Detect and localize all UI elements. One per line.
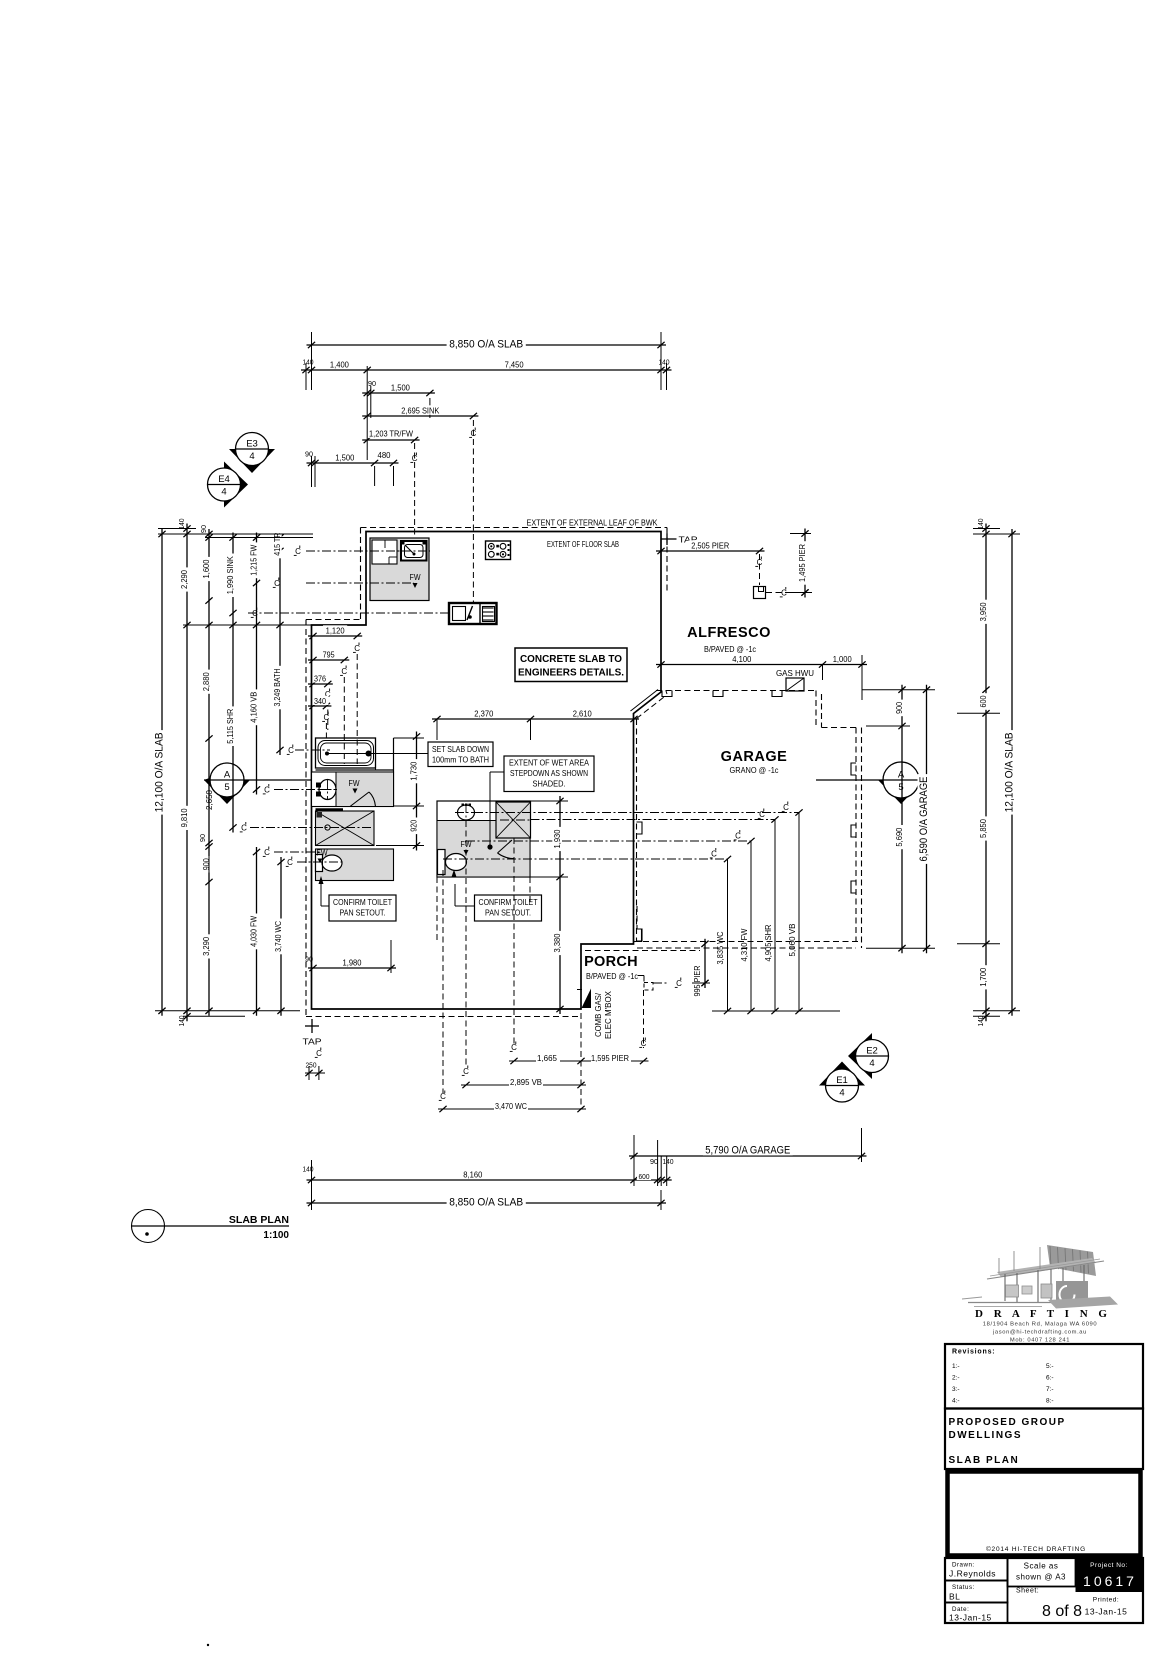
logo address	[983, 1322, 1097, 1328]
svg-text:13-Jan-15: 13-Jan-15	[949, 1613, 992, 1623]
tap symbol top (alfresco)	[661, 534, 698, 546]
svg-text:4: 4	[869, 1058, 874, 1069]
labels 8160 row	[303, 1140, 674, 1186]
wet area leader	[487, 772, 504, 850]
svg-text:140: 140	[177, 1016, 186, 1027]
1495 pier extension lines	[790, 534, 812, 593]
svg-text:140: 140	[976, 519, 985, 530]
svg-text:6,590 O/A GARAGE: 6,590 O/A GARAGE	[918, 776, 930, 861]
shr2 CL down	[510, 838, 517, 1052]
svg-text:2,880: 2,880	[201, 672, 211, 691]
left top extension rows	[158, 529, 313, 538]
ensuite FW label	[349, 779, 360, 794]
svg-text:E4: E4	[218, 474, 230, 485]
svg-text:EXTENT OF WET AREA: EXTENT OF WET AREA	[509, 758, 589, 768]
svg-text:1,215 FW: 1,215 FW	[249, 545, 259, 576]
svg-text:Revisions:: Revisions:	[952, 1349, 995, 1356]
section line A-A left	[204, 777, 312, 783]
section marker E3	[229, 433, 275, 474]
dimension 995 PIER	[701, 939, 708, 988]
svg-text:900: 900	[201, 858, 211, 870]
ext 1930	[530, 801, 568, 877]
svg-text:6:-: 6:-	[1046, 1375, 1054, 1382]
svg-text:PAN SETOUT.: PAN SETOUT.	[485, 908, 531, 918]
svg-text:C: C	[287, 858, 293, 867]
dimension 5790 OA GARAGE	[629, 1144, 867, 1159]
dimension 90/1500 row	[362, 382, 435, 396]
label 90 left a	[199, 525, 208, 533]
ensuite wc area	[316, 849, 394, 881]
dimension 4100/1000 alfresco	[656, 654, 867, 668]
label 90 b	[305, 450, 313, 459]
svg-text:1,665: 1,665	[537, 1053, 557, 1063]
porch pier dashed box	[644, 978, 710, 991]
chamfer corner dashed leaf	[631, 690, 668, 719]
dim 3470 WC	[438, 1101, 586, 1112]
svg-text:PROPOSED GROUP: PROPOSED GROUP	[949, 1417, 1066, 1428]
room label ALFRESCO	[687, 625, 771, 641]
tap symbol bottom	[303, 1019, 323, 1058]
confirm toilet note box left	[329, 895, 396, 921]
room label PORCH paved	[586, 972, 638, 981]
svg-text:1,000: 1,000	[833, 654, 852, 664]
svg-text:1:100: 1:100	[263, 1230, 289, 1241]
logo mobile	[1010, 1338, 1070, 1344]
dimension 340	[308, 703, 331, 709]
bath2 FW label	[461, 840, 472, 855]
note box set slab down	[428, 742, 493, 767]
logo word DRAFTING	[975, 1308, 1111, 1320]
svg-text:C: C	[440, 1092, 446, 1101]
svg-text:1,495 PIER: 1,495 PIER	[797, 544, 807, 582]
svg-text:ENGINEERS DETAILS.: ENGINEERS DETAILS.	[518, 667, 624, 679]
svg-text:8,160: 8,160	[463, 1170, 482, 1180]
svg-text:TAP: TAP	[303, 1037, 322, 1047]
svg-text:795: 795	[323, 650, 335, 660]
svg-text:GARAGE: GARAGE	[721, 749, 788, 765]
dimension 140/1400/7450 top	[301, 359, 672, 373]
bath2 room outline	[437, 801, 530, 877]
svg-text:C: C	[341, 667, 347, 676]
pier centreline dashed vertical	[755, 554, 762, 585]
alfresco pier square	[754, 587, 766, 599]
ensuite shower	[316, 811, 375, 846]
svg-text:9,810: 9,810	[179, 808, 189, 827]
svg-text:376: 376	[314, 675, 326, 684]
svg-text:C: C	[295, 547, 301, 556]
shr CL to garage	[531, 809, 779, 1012]
svg-text:4,905 SHR: 4,905 SHR	[763, 925, 773, 962]
label 1203	[368, 429, 416, 439]
bath tub	[316, 738, 376, 768]
svg-text:900: 900	[894, 702, 904, 714]
svg-text:EXTENT OF FLOOR SLAB: EXTENT OF FLOOR SLAB	[547, 540, 619, 549]
svg-text:100mm TO BATH: 100mm TO BATH	[432, 755, 489, 765]
ensuite door swing	[350, 792, 376, 807]
bath CL dashed	[295, 749, 330, 751]
svg-text:90: 90	[305, 955, 313, 964]
dimension 2370/2610	[432, 708, 639, 722]
pier centreline dashed horizontal	[766, 587, 809, 598]
svg-text:C: C	[641, 1039, 647, 1048]
laundry FW label	[410, 573, 421, 588]
svg-text:5,850: 5,850	[978, 819, 988, 838]
project title box	[945, 1409, 1143, 1470]
note box concrete slab	[515, 648, 627, 682]
svg-text:4,030 FW: 4,030 FW	[249, 916, 259, 947]
svg-text:C: C	[471, 429, 477, 438]
svg-text:995 PIER: 995 PIER	[692, 966, 702, 997]
svg-text:140: 140	[663, 1157, 674, 1166]
section marker E4	[208, 462, 249, 508]
bottom row line garage dims	[712, 1008, 840, 1014]
svg-text:2,610: 2,610	[573, 709, 592, 719]
svg-text:E3: E3	[246, 439, 258, 450]
note box wet area	[504, 756, 594, 792]
svg-text:1,730: 1,730	[409, 761, 419, 780]
svg-text:5: 5	[898, 782, 903, 793]
svg-text:5,690: 5,690	[894, 827, 904, 846]
svg-text:5,790 O/A GARAGE: 5,790 O/A GARAGE	[705, 1145, 790, 1157]
svg-text:1:-: 1:-	[952, 1363, 960, 1370]
label 2650	[204, 790, 214, 810]
svg-text:4,100: 4,100	[732, 654, 751, 664]
svg-text:3,290: 3,290	[201, 937, 211, 956]
dimension 1120	[308, 625, 362, 639]
svg-text:E2: E2	[866, 1046, 878, 1057]
ext row463	[312, 456, 394, 487]
svg-text:4: 4	[221, 487, 226, 498]
svg-text:250: 250	[306, 1061, 317, 1070]
label 90 1980	[305, 940, 391, 973]
section marker E1	[819, 1062, 865, 1103]
laundry fw CL dashed	[306, 582, 414, 584]
cl 795	[340, 666, 347, 765]
dimension 4030 FW	[249, 847, 261, 1016]
svg-text:140: 140	[976, 1016, 985, 1027]
ensuite vanity basin	[316, 780, 337, 800]
ensuite vanity area	[312, 772, 394, 807]
dimension 1215 fw / 4160 vb	[249, 533, 261, 795]
dimension 3740 WC	[273, 857, 285, 1016]
svg-text:4: 4	[249, 451, 254, 462]
extension 4100 ticks	[823, 655, 863, 700]
svg-text:STEPDOWN AS SHOWN: STEPDOWN AS SHOWN	[510, 768, 588, 778]
left chain 209 mid	[208, 739, 210, 883]
svg-text:C: C	[274, 579, 280, 588]
confirm toilet leader right	[455, 884, 475, 906]
laundry trough sink	[401, 541, 427, 561]
svg-text:90: 90	[198, 834, 207, 842]
svg-text:600: 600	[978, 695, 988, 707]
label 90 left b	[198, 834, 207, 842]
svg-text:2,370: 2,370	[474, 709, 493, 719]
svg-text:C: C	[511, 1043, 517, 1052]
confirm toilet leader left	[319, 876, 330, 906]
tr/fw CL vertical dashed	[410, 443, 417, 538]
dimension 6590 OA GARAGE	[918, 685, 931, 954]
porch pier centreline down	[639, 990, 646, 1048]
section marker A5 left	[204, 763, 250, 804]
svg-text:C: C	[759, 810, 765, 819]
svg-text:90: 90	[368, 379, 376, 388]
vanity CL dashed	[274, 789, 336, 791]
ext 8850 bottom	[312, 1160, 662, 1210]
wc CL to garage	[443, 848, 731, 1011]
svg-text:SHADED.: SHADED.	[533, 779, 566, 789]
svg-text:340: 340	[314, 697, 326, 706]
svg-text:Mob: 0407 128 241: Mob: 0407 128 241	[1010, 1338, 1070, 1344]
dimension 1990 sink / 5115 shr	[225, 533, 237, 833]
svg-text:GRANO @ -1c: GRANO @ -1c	[730, 766, 779, 775]
section line A-A right	[816, 779, 925, 781]
ext 1730	[376, 738, 424, 846]
porch pier dim 1665/1595	[509, 1053, 649, 1064]
svg-text:C: C	[412, 454, 418, 463]
comb gas/elec mbox triangle	[577, 989, 591, 1009]
svg-text:C: C	[252, 609, 258, 618]
dimension 90/1500/480 row	[307, 452, 399, 466]
svg-text:C: C	[781, 589, 787, 598]
svg-text:10617: 10617	[1083, 1573, 1137, 1589]
svg-text:1,600: 1,600	[201, 559, 211, 578]
hi-tech drafting logo house	[962, 1245, 1118, 1309]
svg-text:13-Jan-15: 13-Jan-15	[1085, 1607, 1128, 1617]
dimension 1203 TRFW	[362, 437, 419, 443]
svg-text:A: A	[224, 770, 231, 781]
svg-text:PORCH: PORCH	[584, 954, 638, 970]
svg-text:1,595 PIER: 1,595 PIER	[591, 1053, 629, 1063]
svg-text:1,990 SINK: 1,990 SINK	[225, 556, 235, 594]
left mid extension row	[183, 624, 313, 626]
label 376	[313, 674, 331, 731]
svg-text:Scale as: Scale as	[1024, 1562, 1059, 1571]
svg-text:8,850 O/A SLAB: 8,850 O/A SLAB	[449, 339, 523, 351]
svg-text:4,310 FW: 4,310 FW	[739, 929, 749, 962]
svg-text:EXTENT OF EXTERNAL LEAF OF BWK: EXTENT OF EXTERNAL LEAF OF BWK	[527, 519, 659, 528]
right extension rows	[957, 529, 1020, 1017]
svg-text:ALFRESCO: ALFRESCO	[687, 625, 771, 641]
svg-text:8 of 8: 8 of 8	[1042, 1603, 1082, 1620]
left bottom extension row	[155, 1011, 300, 1017]
svg-text:1,400: 1,400	[330, 360, 349, 370]
label 340	[313, 696, 330, 740]
room label GARAGE	[721, 749, 788, 765]
svg-text:FW: FW	[349, 779, 360, 788]
svg-text:90: 90	[199, 525, 208, 533]
ensuite wc FW label	[317, 849, 328, 864]
porch edge CL down	[580, 1013, 582, 1109]
cooktop symbol	[486, 541, 511, 560]
left chain cl symbols	[240, 546, 301, 868]
svg-text:A: A	[898, 770, 905, 781]
dimension 1730/920	[409, 732, 421, 851]
section marker A5 right	[878, 762, 924, 804]
dimension 140/3950/600/5850/1700/140 right	[978, 524, 990, 1022]
svg-text:Drawn:: Drawn:	[952, 1562, 975, 1569]
svg-text:3,249 BATH: 3,249 BATH	[272, 669, 282, 707]
dimension 2290/9810	[179, 524, 191, 1022]
svg-text:2,290: 2,290	[179, 570, 189, 589]
svg-text:3,740 WC: 3,740 WC	[273, 921, 283, 952]
svg-text:FW: FW	[317, 849, 328, 858]
svg-text:C: C	[316, 1049, 322, 1058]
label 90 a	[368, 379, 430, 418]
drawing frame box	[948, 1472, 1141, 1556]
labels 140 left	[177, 519, 186, 1027]
svg-text:5:-: 5:-	[1046, 1363, 1054, 1370]
labels 140 right	[976, 519, 985, 1027]
dimension 1495 PIER	[797, 529, 809, 598]
svg-text:COMB GAS/: COMB GAS/	[594, 992, 603, 1037]
svg-text:1,930: 1,930	[552, 829, 562, 848]
kitchen sink CL dashed	[248, 612, 449, 614]
svg-text:ELEC M'BOX: ELEC M'BOX	[604, 990, 613, 1039]
svg-text:CONFIRM TOILET: CONFIRM TOILET	[333, 897, 392, 907]
label 3835 WC	[715, 932, 725, 965]
svg-text:2,895 VB: 2,895 VB	[510, 1077, 542, 1087]
svg-text:C: C	[676, 979, 682, 988]
cl 1120	[353, 643, 360, 765]
dashes below bath2	[437, 877, 530, 940]
svg-text:C: C	[354, 644, 360, 653]
label COMB GAS/ELEC MBOX	[594, 990, 613, 1039]
kitchen sink unit	[449, 603, 497, 624]
drawing title text	[229, 1214, 290, 1241]
svg-text:2,505 PIER: 2,505 PIER	[691, 541, 729, 551]
svg-text:90: 90	[650, 1157, 658, 1166]
svg-text:1,980: 1,980	[343, 958, 362, 968]
svg-text:C: C	[288, 746, 294, 755]
dimension 2505 PIER	[656, 540, 765, 554]
dim 2895 VB	[461, 1077, 586, 1088]
svg-text:C: C	[463, 1067, 469, 1076]
label 5060 VB	[787, 923, 797, 956]
svg-text:12,100 O/A SLAB: 12,100 O/A SLAB	[154, 732, 166, 812]
svg-text:140: 140	[659, 358, 670, 367]
svg-text:415 TR: 415 TR	[272, 533, 282, 556]
bath2 toilet	[438, 850, 467, 878]
logo email	[992, 1330, 1087, 1336]
svg-text:CONCRETE SLAB TO: CONCRETE SLAB TO	[520, 653, 622, 665]
title block grid	[945, 1558, 1143, 1623]
svg-text:DWELLINGS: DWELLINGS	[949, 1430, 1023, 1441]
svg-text:5,060 VB: 5,060 VB	[787, 923, 797, 956]
vb CL to garage	[474, 802, 803, 1012]
svg-text:600: 600	[639, 1172, 650, 1181]
svg-text:Status:: Status:	[952, 1584, 975, 1591]
shower CL dashed	[250, 827, 374, 829]
ext 8850 top	[312, 332, 662, 358]
svg-text:140: 140	[177, 519, 186, 530]
ext garage right dims	[862, 690, 935, 949]
svg-text:3:-: 3:-	[952, 1386, 960, 1393]
dimension 415 tr / 3249 bath	[272, 530, 284, 755]
dimension 376	[308, 681, 333, 687]
bath2 shower door	[498, 840, 514, 859]
label EXTENT OF EXTERNAL LEAF OF BWK	[527, 519, 659, 528]
room label PORCH	[584, 954, 638, 970]
svg-text:Printed:: Printed:	[1093, 1597, 1119, 1604]
svg-text:3,380: 3,380	[552, 933, 562, 952]
fw CL to garage	[466, 830, 755, 1011]
svg-text:8:-: 8:-	[1046, 1398, 1054, 1405]
svg-text:Project No:: Project No:	[1090, 1562, 1128, 1569]
svg-text:C: C	[324, 713, 330, 722]
label 4905 SHR	[763, 925, 773, 962]
svg-text:D R A F T I N G: D R A F T I N G	[975, 1308, 1111, 1320]
wc CL down	[439, 870, 446, 1101]
extent of external leaf of BWK (dashed)	[306, 528, 667, 1017]
dimension 795	[308, 649, 349, 663]
dimension 8850 OA SLAB bottom	[307, 1196, 667, 1209]
svg-text:18/1904 Beach Rd, Malaga WA 60: 18/1904 Beach Rd, Malaga WA 6090	[983, 1322, 1097, 1328]
svg-text:FW: FW	[410, 573, 421, 582]
laundry shaded area	[370, 538, 429, 601]
ensuite toilet	[316, 855, 343, 872]
svg-text:C: C	[783, 803, 789, 812]
vb CL down	[462, 821, 469, 1076]
ext 2370	[437, 719, 531, 740]
label EXTENT OF FLOOR SLAB	[547, 540, 619, 549]
svg-text:jason@hi-techdrafting.com.au: jason@hi-techdrafting.com.au	[992, 1330, 1087, 1336]
svg-text:SET SLAB DOWN: SET SLAB DOWN	[432, 744, 489, 754]
svg-text:7:-: 7:-	[1046, 1386, 1054, 1393]
svg-text:CONFIRM TOILET: CONFIRM TOILET	[479, 897, 538, 907]
confirm toilet note box right	[475, 895, 542, 921]
section marker E2	[848, 1033, 889, 1079]
svg-text:C: C	[241, 824, 247, 833]
laundry trough cabinet	[372, 540, 397, 564]
ensuite shower threshold	[316, 808, 344, 811]
svg-text:7,450: 7,450	[505, 360, 524, 370]
svg-text:4:-: 4:-	[952, 1398, 960, 1405]
dimension 8160 row	[307, 1169, 672, 1183]
svg-text:2,695 SINK: 2,695 SINK	[401, 406, 439, 416]
svg-text:SLAB PLAN: SLAB PLAN	[229, 1214, 289, 1226]
svg-text:E1: E1	[836, 1075, 848, 1086]
svg-text:8,850 O/A SLAB: 8,850 O/A SLAB	[449, 1197, 523, 1209]
svg-text:4: 4	[839, 1088, 844, 1099]
dim 250	[305, 1061, 325, 1081]
wc CL dashed	[297, 861, 345, 863]
svg-text:1,120: 1,120	[326, 626, 345, 636]
laundry tr CL dashed	[306, 550, 430, 552]
drawing title bubble	[132, 1210, 290, 1243]
svg-text:C: C	[757, 558, 763, 567]
svg-text:3,470 WC: 3,470 WC	[495, 1101, 527, 1111]
bath surround lines	[316, 738, 394, 806]
dimension 1980	[308, 957, 396, 971]
ext 5790	[634, 1128, 862, 1186]
svg-text:PAN SETOUT.: PAN SETOUT.	[340, 908, 386, 918]
svg-text:Sheet:: Sheet:	[1016, 1588, 1039, 1595]
bath2 shower	[496, 802, 531, 838]
dimension 90/1600/2880/2650/900/3290	[201, 529, 213, 1016]
label 995 PIER	[692, 966, 702, 997]
sink CL vertical dashed	[469, 420, 476, 603]
svg-text:1,203 TR/FW: 1,203 TR/FW	[369, 429, 413, 439]
svg-text:12,100 O/A SLAB: 12,100 O/A SLAB	[1004, 732, 1016, 812]
floor slab outline (extent of floor slab)	[312, 532, 662, 1010]
room label GARAGE grano	[730, 766, 779, 775]
porch dashed boundary	[585, 906, 700, 982]
garage dashed wall outline with piers	[634, 691, 862, 949]
labels 140 top	[303, 358, 670, 367]
svg-text:480: 480	[378, 450, 391, 460]
svg-text:©2014 HI-TECH DRAFTING: ©2014 HI-TECH DRAFTING	[986, 1545, 1086, 1553]
svg-text:2:-: 2:-	[952, 1375, 960, 1382]
